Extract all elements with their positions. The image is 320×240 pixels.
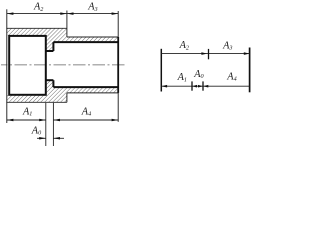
- right end face thick: [117, 37, 119, 93]
- outer step lower: [66, 93, 68, 102]
- A0 chain left arrow: [192, 85, 197, 88]
- A3 left arrow: [67, 12, 74, 15]
- svg-text:A2: A2: [179, 40, 189, 51]
- top edge big section: [6, 27, 67, 29]
- left wall: [160, 49, 162, 92]
- right bore top: [53, 41, 118, 43]
- outer step upper with extension: [66, 11, 68, 38]
- dimension lines: [7, 14, 118, 146]
- hatch top wall: [7, 28, 118, 51]
- dim line A4 bottom: [53, 119, 118, 121]
- A4 left arrow: [53, 119, 60, 122]
- chain top tick: [208, 49, 210, 59]
- A3 right arrow: [112, 12, 119, 15]
- A1 chain vector arrow: [161, 85, 167, 88]
- A0 chain right arrow: [198, 85, 203, 88]
- hatch bottom wall: [7, 80, 118, 102]
- A0 right arrow: [53, 137, 60, 140]
- centerline: [1, 64, 127, 66]
- left face with extension ends: [6, 9, 8, 123]
- chain top line: [161, 53, 249, 55]
- A4 chain vector arrow: [203, 85, 208, 88]
- A0 left arrow: [39, 137, 46, 140]
- svg-text:A0: A0: [193, 69, 204, 80]
- svg-text:A0: A0: [31, 125, 42, 136]
- top edge small section: [67, 36, 118, 38]
- web hole lower edge: [46, 79, 54, 81]
- svg-text:A3: A3: [87, 2, 97, 13]
- outer contour thin: [6, 9, 118, 123]
- A2 right arrow: [60, 12, 67, 15]
- A2 chain vector arrow: [201, 52, 207, 55]
- chain bottom line: [161, 85, 249, 87]
- A2 left arrow: [7, 12, 14, 15]
- arrowheads part dims: [7, 12, 118, 139]
- svg-text:A1: A1: [22, 106, 32, 117]
- A1 left arrow: [7, 119, 14, 122]
- A3 chain vector arrow: [244, 52, 250, 55]
- dim line A0 right tail: [53, 137, 64, 139]
- chain tick bore: [191, 81, 193, 90]
- svg-text:A1: A1: [177, 72, 187, 83]
- right bore bottom: [53, 86, 118, 88]
- big bore thick outline: [9, 36, 118, 95]
- chain arrowheads: [161, 52, 249, 87]
- web face lower: [52, 80, 54, 87]
- right wall: [249, 48, 251, 93]
- dim line A1 bottom: [7, 119, 46, 121]
- extension line bore end: [45, 103, 47, 146]
- right face extension down: [117, 93, 119, 122]
- extension line web face: [52, 103, 54, 146]
- A4 right arrow: [112, 119, 119, 122]
- svg-text:A2: A2: [33, 2, 43, 13]
- svg-text:A4: A4: [81, 106, 91, 117]
- right face extension up: [117, 11, 119, 37]
- A1 right arrow: [39, 119, 46, 122]
- bottom edge big section: [6, 101, 67, 103]
- svg-text:A3: A3: [222, 40, 232, 51]
- dim line A0 left tail: [37, 137, 46, 139]
- chain tick web: [202, 81, 204, 90]
- dim line A2 A3 top: [7, 13, 118, 15]
- web face upper: [52, 42, 54, 51]
- web hole upper edge: [46, 50, 54, 52]
- svg-text:A4: A4: [226, 71, 236, 82]
- bottom edge small section: [67, 92, 118, 94]
